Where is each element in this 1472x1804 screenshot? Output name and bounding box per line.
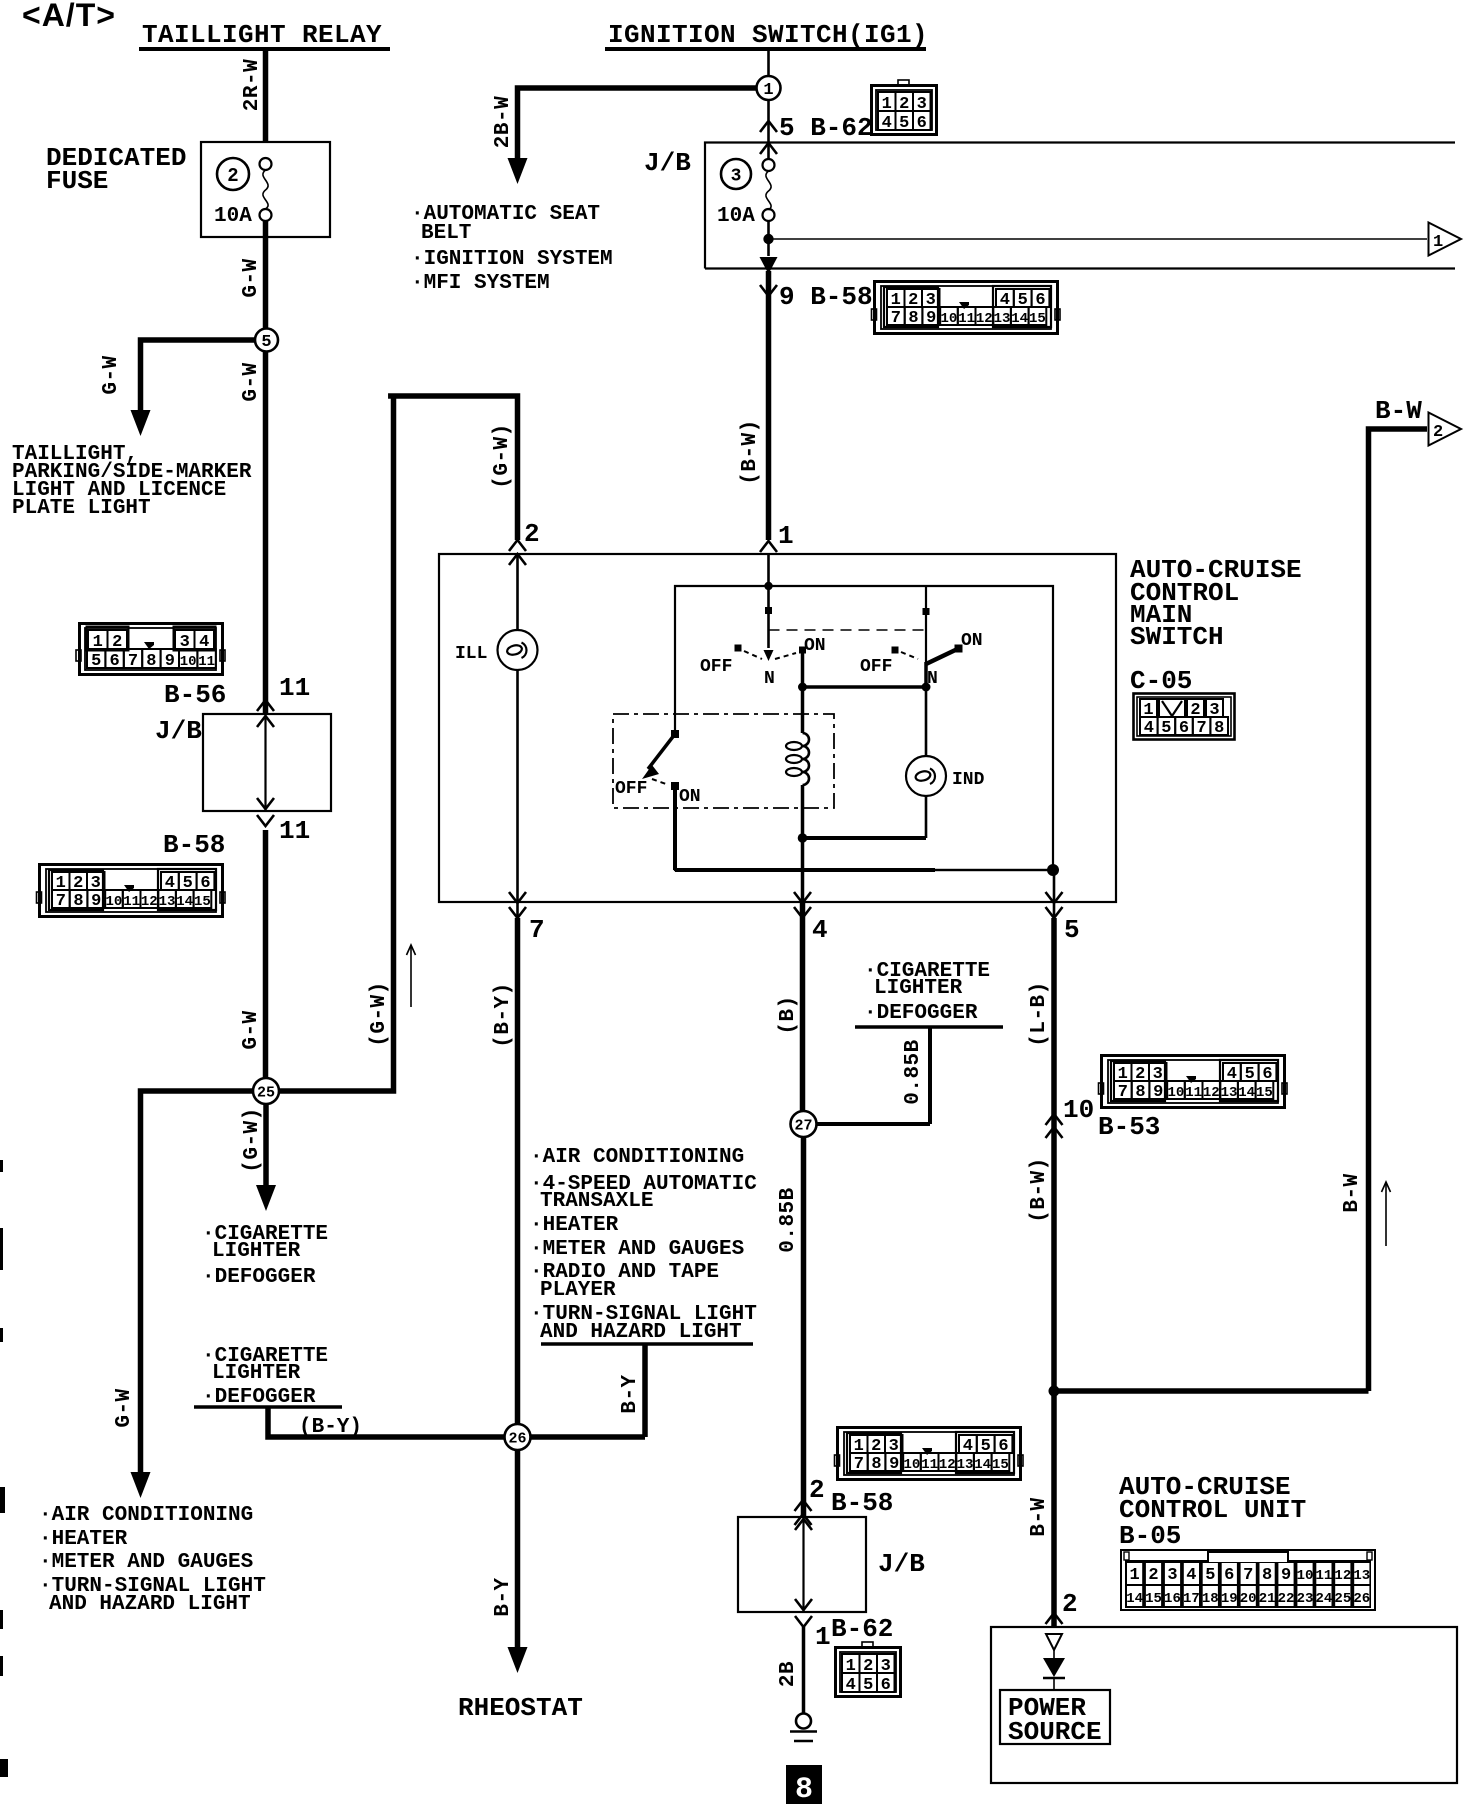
label B-53: [1098, 1112, 1160, 1142]
wire pin2 to ILL lamp to pin7: [516, 554, 519, 902]
svg-text:RHEOSTAT: RHEOSTAT: [458, 1693, 583, 1723]
svg-text:0.85B: 0.85B: [902, 1039, 925, 1105]
svg-text:SWITCH: SWITCH: [1130, 622, 1224, 652]
wire label 2R-W: [241, 59, 264, 111]
label 10A (fuse 3): [717, 205, 755, 228]
label 2 B-58: [809, 1475, 893, 1518]
label RHEOSTAT: [458, 1693, 583, 1723]
label cigarette lighter / defogger (lower block): [194, 1345, 342, 1409]
svg-text:·DEFOGGER: ·DEFOGGER: [864, 1002, 978, 1025]
wire label 0.85B: [777, 1187, 800, 1253]
svg-text:IND: IND: [952, 770, 985, 790]
label 9 B-58: [779, 282, 873, 312]
pin 2 mark (control unit): [1046, 1589, 1078, 1624]
label J/B (bottom): [878, 1549, 925, 1579]
svg-text:ILL: ILL: [455, 644, 487, 664]
page number 8: [786, 1765, 822, 1804]
svg-text:SOURCE: SOURCE: [1008, 1717, 1102, 1747]
wire G-W junction 5 to J/B: [263, 352, 269, 715]
wire label G-W: [240, 258, 263, 297]
flow arrow beside riser: [407, 945, 416, 1007]
svg-text:11: 11: [279, 816, 310, 846]
svg-text:<A/T>: <A/T>: [22, 0, 116, 33]
svg-text:(B): (B): [777, 995, 800, 1034]
junction 5: [255, 329, 278, 353]
connector B-62 (bottom): [836, 1642, 901, 1697]
wire to page arrow 1: [769, 238, 1428, 240]
svg-text:5 B-62: 5 B-62: [779, 113, 873, 143]
svg-text:G-W: G-W: [240, 1010, 263, 1049]
label B-56: [164, 680, 226, 710]
wire label G-W (bottom branch): [113, 1388, 136, 1427]
label J/B (left): [155, 716, 202, 746]
svg-text:1: 1: [763, 81, 773, 100]
page arrow 1: [1429, 223, 1462, 256]
ignition switch title: [605, 20, 928, 50]
svg-text:10A: 10A: [717, 205, 755, 228]
node B-W junction: [1049, 1386, 1060, 1397]
taillight relay title: [139, 20, 390, 50]
junction 1: [757, 76, 781, 100]
auto-cruise control main switch box: [439, 554, 1116, 902]
wire G-W fuse to junction 5: [263, 221, 269, 329]
svg-text:2: 2: [809, 1475, 825, 1505]
svg-text:3: 3: [731, 166, 742, 186]
wire label G-W: [240, 362, 263, 401]
connector mark pin 11 (top): [257, 673, 310, 711]
fuse box DEDICATED FUSE: [201, 142, 330, 237]
svg-text:(G-W): (G-W): [491, 423, 514, 489]
svg-text:25: 25: [257, 1084, 275, 1101]
wire G-W J/B to junction 25: [263, 830, 269, 1091]
connector mark pin 11 (bottom): [257, 815, 310, 846]
main switch contact set (right): [892, 586, 963, 664]
pin 2 marks: [509, 519, 540, 565]
svg-text:2: 2: [524, 519, 540, 549]
wire B-W to page arrow 2: [1054, 429, 1427, 1391]
junction block J/B (bottom): [738, 1517, 866, 1612]
connector B-58 (top): [872, 282, 1061, 334]
junction block J/B (right): [705, 143, 1455, 269]
wire label G-W (branch): [100, 355, 123, 394]
diode (unit): [1043, 1650, 1065, 1690]
wire 0.85B junction 27 to B-58: [795, 1137, 812, 1525]
svg-text:(B-W): (B-W): [739, 419, 762, 485]
label AUTO-CRUISE CONTROL MAIN SWITCH: [1130, 555, 1302, 652]
svg-text:·METER AND GAUGES: ·METER AND GAUGES: [530, 1238, 744, 1261]
label air conditioning list (middle): [530, 1146, 757, 1344]
svg-text:(B-W): (B-W): [1028, 1157, 1051, 1223]
label OFF (left switch): [700, 657, 732, 677]
label ON (right switch): [961, 631, 983, 651]
svg-text:26: 26: [508, 1430, 526, 1447]
svg-text:G-W: G-W: [113, 1388, 136, 1427]
label C-05: [1130, 666, 1192, 696]
wire label (B): [777, 995, 800, 1034]
label automatic seat belt / ignition system / mfi system: [411, 203, 613, 295]
svg-text:OFF: OFF: [615, 779, 647, 799]
junction 27: [791, 1111, 817, 1137]
wire label B-W (riser): [1341, 1173, 1364, 1212]
svg-text:ON: ON: [679, 787, 701, 807]
wire B-W to main switch pin 1: [766, 271, 772, 540]
flow arrow beside B-W riser: [1382, 1182, 1391, 1246]
label 5 B-62: [779, 113, 873, 143]
svg-text:·AIR CONDITIONING: ·AIR CONDITIONING: [39, 1504, 253, 1527]
mechanical link dashed: [769, 629, 927, 631]
label N (left switch): [764, 669, 775, 689]
svg-text:·DEFOGGER: ·DEFOGGER: [202, 1266, 316, 1289]
svg-text:2B-W: 2B-W: [492, 96, 515, 148]
connector B-62 (top): [872, 80, 937, 135]
wire (B-Y) defogger to junction 26: [268, 1407, 505, 1437]
label OFF (right switch): [860, 657, 892, 677]
wire G-W branch to air conditioning etc: [131, 1091, 254, 1498]
svg-text:(B-Y): (B-Y): [492, 982, 515, 1048]
label IND: [952, 770, 985, 790]
label ON (relay): [679, 787, 701, 807]
connector mark 1 B-62: [795, 1614, 893, 1652]
power source box: [1000, 1690, 1110, 1747]
svg-text:(B-Y): (B-Y): [299, 1416, 362, 1439]
wire fuse 3 output node: [763, 221, 773, 256]
svg-text:2: 2: [227, 165, 238, 187]
svg-text:0.85B: 0.85B: [777, 1187, 800, 1253]
wire exits J/B bottom: [760, 257, 778, 296]
svg-text:ON: ON: [961, 631, 983, 651]
svg-text:·MFI SYSTEM: ·MFI SYSTEM: [411, 272, 550, 295]
svg-text:8: 8: [795, 1773, 813, 1804]
svg-text:B-W: B-W: [1375, 396, 1422, 426]
svg-text:IGNITION SWITCH(IG1): IGNITION SWITCH(IG1): [608, 20, 928, 50]
svg-text:G-W: G-W: [240, 362, 263, 401]
svg-text:B-W: B-W: [1028, 1497, 1051, 1536]
svg-text:·HEATER: ·HEATER: [530, 1214, 619, 1237]
svg-text:J/B: J/B: [155, 716, 202, 746]
svg-text:BELT: BELT: [421, 222, 471, 245]
svg-text:PLAYER: PLAYER: [540, 1279, 616, 1302]
svg-text:B-58: B-58: [831, 1488, 893, 1518]
wire B-Y list to junction 26: [530, 1344, 645, 1437]
wire (L-B)/(B-W) pin 5 down to control unit: [1053, 870, 1056, 1627]
label ILL: [455, 644, 487, 664]
relay switch: [642, 730, 679, 790]
svg-text:LIGHTER: LIGHTER: [212, 1362, 301, 1385]
svg-text:B-58: B-58: [163, 830, 225, 860]
svg-text:PLATE LIGHT: PLATE LIGHT: [12, 497, 151, 520]
connector B-56: [76, 624, 225, 675]
svg-text:(G-W): (G-W): [241, 1107, 264, 1173]
wire label (G-W) below junction 25: [241, 1107, 264, 1173]
svg-text:(L-B): (L-B): [1028, 981, 1051, 1047]
svg-text:OFF: OFF: [860, 657, 892, 677]
label taillight parking side-marker: [12, 443, 252, 520]
svg-text:C-05: C-05: [1130, 666, 1192, 696]
pin 7 marks: [509, 892, 545, 945]
svg-text:OFF: OFF: [700, 657, 732, 677]
svg-text:B-62: B-62: [831, 1614, 893, 1644]
svg-text:·HEATER: ·HEATER: [39, 1528, 128, 1551]
connector B-58 (bottom): [835, 1428, 1024, 1480]
svg-text:(G-W): (G-W): [368, 981, 391, 1047]
switch inner box: [675, 586, 1053, 870]
circled 2: [217, 158, 249, 190]
svg-text:·METER AND GAUGES: ·METER AND GAUGES: [39, 1551, 253, 1574]
wire (B-Y) pin 7 to junction 26: [516, 902, 519, 1425]
pin 5 marks: [1046, 892, 1080, 945]
label B-W (top): [1375, 396, 1422, 426]
wire label (B-W): [739, 419, 762, 485]
svg-text:LIGHTER: LIGHTER: [874, 977, 963, 1000]
wire branch G-W to taillight: [131, 340, 256, 436]
wire 0.85B defogger to junction 27: [816, 1027, 930, 1124]
label B-58 (left): [163, 830, 225, 860]
wire B-Y junction 26 to rheostat: [508, 1450, 528, 1673]
wire label G-W: [240, 1010, 263, 1049]
wire junction 1 into J/B: [760, 100, 777, 160]
svg-text:ON: ON: [804, 636, 826, 656]
label ON (left switch): [804, 636, 826, 656]
fuse element 2: [260, 158, 272, 221]
relay box (dash-dot): [613, 714, 834, 808]
svg-text:G-W: G-W: [240, 258, 263, 297]
svg-text:B-05: B-05: [1119, 1521, 1181, 1551]
junction 26: [505, 1424, 531, 1450]
label N (right switch): [927, 669, 938, 689]
connector B-58 (left): [37, 865, 226, 917]
wire label (B-Y) horizontal: [299, 1416, 362, 1439]
svg-text:1: 1: [1433, 233, 1443, 252]
svg-text:B-Y: B-Y: [492, 1577, 515, 1616]
svg-text:5: 5: [261, 333, 271, 352]
wire 2B-W branch: [508, 88, 757, 184]
wire label 0.85B (branch): [902, 1039, 925, 1105]
wire (B) pin 4 to junction 27: [800, 902, 806, 1112]
svg-text:AND HAZARD LIGHT: AND HAZARD LIGHT: [49, 1593, 251, 1616]
label B-05: [1119, 1521, 1181, 1551]
input triangle (unit): [1046, 1634, 1062, 1650]
label air conditioning list (bottom left): [39, 1504, 266, 1616]
wire label B-W (to unit): [1028, 1497, 1051, 1536]
label cigarette lighter / defogger (right block): [855, 960, 1003, 1027]
pin 4 marks: [794, 892, 828, 945]
page arrow 2: [1429, 413, 1462, 446]
svg-text:·IGNITION SYSTEM: ·IGNITION SYSTEM: [411, 248, 613, 271]
wire switch outputs junction: [798, 650, 931, 692]
svg-text:TAILLIGHT RELAY: TAILLIGHT RELAY: [142, 20, 382, 50]
wire (G-W) riser junction 25 to main switch pin 2: [279, 396, 518, 1091]
wire label 2B-W: [492, 96, 515, 148]
junction block J/B (left): [203, 714, 331, 811]
svg-text:2: 2: [1433, 423, 1443, 442]
wire 2R-W taillight relay to fuse: [263, 49, 269, 143]
wire pin1 into switch: [764, 554, 774, 661]
wire label (B-W): [1028, 1157, 1051, 1223]
wire label (L-B): [1028, 981, 1051, 1047]
label cigarette lighter / defogger (upper block): [202, 1223, 328, 1289]
connector C-05: [1134, 694, 1235, 740]
svg-text:J/B: J/B: [644, 148, 691, 178]
connector mark 10 B-53: [1046, 1095, 1095, 1138]
svg-text:FUSE: FUSE: [46, 166, 108, 196]
svg-text:N: N: [764, 669, 775, 689]
wire (G-W) junction 25 to cigarette lighter: [256, 1104, 276, 1211]
svg-text:B-56: B-56: [164, 680, 226, 710]
lamp ILL: [498, 630, 538, 670]
svg-text:5: 5: [1064, 915, 1080, 945]
fuse element 3: [763, 159, 775, 221]
wire label B-Y: [492, 1577, 515, 1616]
pin 1 marks: [760, 521, 794, 552]
svg-text:LIGHTER: LIGHTER: [212, 1240, 301, 1263]
svg-text:·AIR CONDITIONING: ·AIR CONDITIONING: [530, 1146, 744, 1169]
wire ignition switch to junction 1: [767, 49, 770, 76]
svg-text:10A: 10A: [214, 205, 252, 228]
svg-text:27: 27: [794, 1117, 812, 1134]
connector B-53: [1099, 1056, 1288, 1108]
label DEDICATED FUSE: [46, 143, 186, 196]
circled 3: [721, 159, 751, 189]
svg-text:9 B-58: 9 B-58: [779, 282, 873, 312]
svg-text:2R-W: 2R-W: [241, 59, 264, 111]
auto-cruise control unit box: [991, 1627, 1457, 1783]
connector B-05: [1121, 1550, 1375, 1610]
svg-text:AND HAZARD LIGHT: AND HAZARD LIGHT: [540, 1321, 742, 1344]
relay coil: [786, 687, 809, 902]
label 10A (fuse 2): [214, 205, 252, 228]
wire label (G-W) riser top: [491, 423, 514, 489]
main switch contact set (left): [735, 645, 807, 660]
svg-text:4: 4: [812, 915, 828, 945]
svg-text:7: 7: [529, 915, 545, 945]
wire 2B to ground: [802, 1627, 806, 1713]
svg-text:2: 2: [1062, 1589, 1078, 1619]
wire label B-Y (list drop): [619, 1374, 642, 1413]
svg-text:B-53: B-53: [1098, 1112, 1160, 1142]
label J/B (right): [644, 148, 691, 178]
svg-text:10: 10: [1063, 1095, 1094, 1125]
junction 25: [253, 1078, 279, 1104]
wire label 2B: [777, 1661, 800, 1687]
svg-text:J/B: J/B: [878, 1549, 925, 1579]
lamp IND: [803, 687, 946, 838]
svg-text:1: 1: [815, 1622, 831, 1652]
ground: [790, 1714, 817, 1742]
svg-text:11: 11: [279, 673, 310, 703]
wire label (B-Y): [492, 982, 515, 1048]
label OFF (relay): [615, 779, 647, 799]
svg-text:G-W: G-W: [100, 355, 123, 394]
svg-text:1: 1: [778, 521, 794, 551]
wire relay output to bottom rail: [675, 786, 1059, 876]
svg-text:TRANSAXLE: TRANSAXLE: [540, 1190, 653, 1213]
wire label (G-W) riser bottom: [368, 981, 391, 1047]
label AUTO-CRUISE CONTROL UNIT: [1119, 1472, 1306, 1525]
svg-text:B-Y: B-Y: [619, 1374, 642, 1413]
svg-text:2B: 2B: [777, 1661, 800, 1687]
svg-text:B-W: B-W: [1341, 1173, 1364, 1212]
